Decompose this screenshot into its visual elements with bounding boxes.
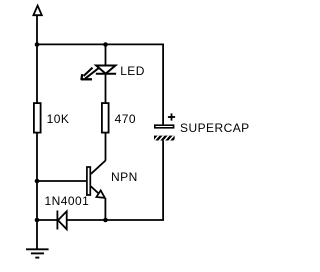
svg-text:10K: 10K: [47, 112, 70, 126]
svg-text:NPN: NPN: [111, 170, 138, 184]
svg-text:LED: LED: [120, 64, 145, 78]
svg-text:SUPERCAP: SUPERCAP: [180, 121, 250, 135]
svg-text:470: 470: [115, 112, 136, 126]
svg-text:1N4001: 1N4001: [45, 194, 90, 208]
